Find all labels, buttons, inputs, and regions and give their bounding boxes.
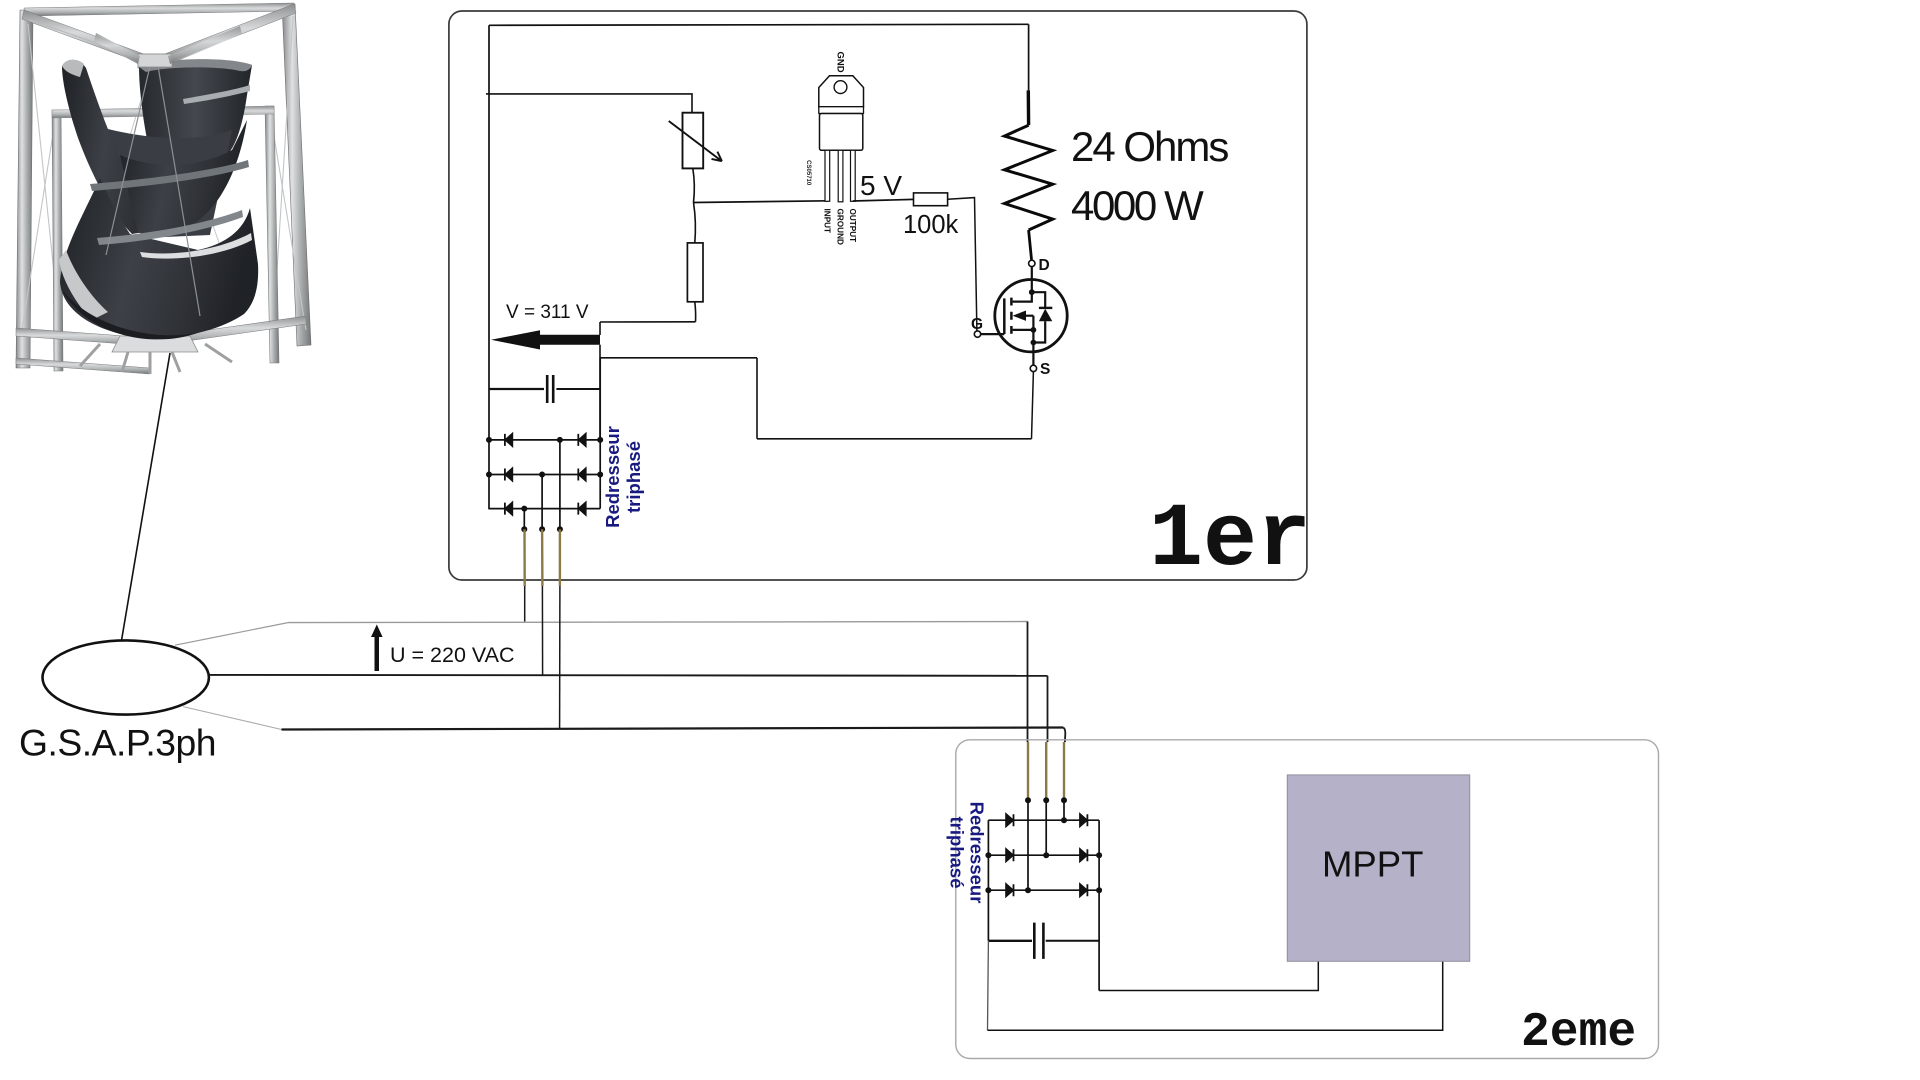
photo: wind turbine frame outer left post bbox=[16, 10, 33, 368]
photo: wind turbine guy cable right diagonal bbox=[272, 16, 293, 350]
photo: wind turbine stripe mid body bbox=[90, 160, 249, 191]
svg-text:V = 311 V: V = 311 V bbox=[506, 302, 589, 323]
photo: wind turbine frame top-right V beam bbox=[157, 4, 296, 66]
wire: olive phase lead C (2eme) bbox=[1063, 742, 1065, 800]
photo: wind turbine top cup rim highlight bbox=[139, 59, 252, 72]
wire: source return vertical bbox=[756, 358, 758, 439]
diode D10 (row1 right, pointing right) bbox=[1080, 814, 1087, 826]
photo: wind turbine bottom-left beam bbox=[16, 328, 152, 346]
svg-text:GND: GND bbox=[835, 51, 846, 72]
rectifier 1 row 1 wire bbox=[489, 439, 600, 441]
MOSFET Q1 source terminal circle bbox=[1030, 365, 1036, 371]
wire: mosfet source stub inside bbox=[1032, 345, 1034, 365]
photo: wind turbine bottom hub bbox=[112, 336, 198, 352]
box 1er outline bbox=[449, 11, 1307, 580]
wire: mid junction down to resistor R2 bbox=[694, 203, 696, 243]
svg-text:INPUT: INPUT bbox=[822, 209, 831, 234]
voltage regulator U1 mounting hole bbox=[834, 81, 847, 94]
photo: wind turbine inner top beam bbox=[52, 106, 274, 118]
svg-text:S: S bbox=[1040, 361, 1050, 378]
svg-text:2eme: 2eme bbox=[1521, 1006, 1636, 1060]
resistor R3 100k body bbox=[914, 193, 948, 206]
potentiometer body bbox=[683, 113, 704, 169]
diode D3 (row3 left, pointing left) bbox=[505, 503, 512, 515]
wire: top bus drop to load resistor bbox=[1028, 24, 1030, 90]
MOSFET Q1 body diode triangle bbox=[1039, 309, 1052, 322]
svg-text:1er: 1er bbox=[1149, 490, 1311, 592]
photo: wind turbine bottom white band bbox=[59, 250, 108, 320]
diode D8 (row2 left, pointing right) bbox=[1006, 849, 1013, 861]
photo: wind turbine bottom shadow edge bbox=[62, 290, 200, 339]
wire: drain into mosfet bbox=[1031, 267, 1033, 293]
wire: source return horizontal upper bbox=[600, 357, 757, 359]
wire: R2 bottom horizontal to arrow node bbox=[600, 321, 696, 323]
voltage regulator U1 leg INPUT bbox=[825, 150, 830, 201]
wire: phase C vertical drop to 2eme bbox=[1063, 728, 1065, 743]
resistor R2 body bbox=[687, 243, 703, 302]
photo: wind turbine front cable left bbox=[106, 66, 150, 255]
rectifier 2 row 3 wire bbox=[988, 889, 1099, 891]
rectifier 2 phase column C bbox=[1063, 800, 1065, 820]
photo: wind turbine bottom-left lower rail bbox=[16, 358, 150, 374]
photo: wind turbine guy cable left diagonal bbox=[28, 24, 60, 330]
photo: wind turbine top beam stub left front bbox=[94, 33, 140, 64]
box 2eme outline bbox=[956, 740, 1659, 1059]
wire: branch to potentiometer top bbox=[486, 94, 692, 113]
arrow up at U = 220 VAC bbox=[371, 625, 383, 672]
svg-text:100k: 100k bbox=[903, 211, 959, 239]
wire: phase A diagonal from generator bbox=[175, 623, 288, 646]
diode D4 (row1 right, pointing left) bbox=[578, 434, 585, 446]
svg-text:Redresseur: Redresseur bbox=[602, 426, 623, 528]
wire: 100k to MOSFET gate bbox=[948, 198, 977, 331]
photo: wind turbine frame top beam bbox=[24, 3, 295, 16]
load resistor R4 top lead (thick) bbox=[1027, 90, 1031, 125]
rectifier 1 row 2 wire bbox=[489, 474, 600, 476]
svg-text:5 V: 5 V bbox=[860, 170, 902, 201]
wire: OUTPUT to resistor 100k bbox=[853, 199, 914, 201]
wire: bottom rail to MPPT right pin bbox=[988, 961, 1443, 1030]
voltage regulator U1 tab bbox=[819, 76, 864, 107]
MOSFET Q1 body diode top link bbox=[1032, 292, 1045, 308]
svg-text:GROUND: GROUND bbox=[836, 209, 845, 245]
load resistor R4 zigzag 24 Ohms 4000 W bbox=[1005, 125, 1053, 230]
photo: wind turbine front cable right bbox=[158, 66, 200, 316]
svg-text:MPPT: MPPT bbox=[1322, 844, 1423, 885]
capacitor C2 plates bbox=[1034, 923, 1043, 959]
diode D6 (row3 right, pointing left) bbox=[578, 503, 585, 515]
wire: phase B vertical drop to 2eme bbox=[1047, 676, 1049, 742]
svg-text:24 Ohms: 24 Ohms bbox=[1071, 123, 1228, 170]
photo: wind turbine guy cable center-right down bbox=[157, 64, 225, 260]
svg-text:triphasé: triphasé bbox=[623, 441, 644, 513]
photo: wind turbine body fill patch bbox=[104, 128, 232, 238]
svg-text:4000 W: 4000 W bbox=[1071, 182, 1204, 229]
photo: wind turbine top hub plate front bbox=[138, 54, 172, 67]
rectifier 2 phase column A bbox=[1027, 800, 1029, 890]
diode D9 (row3 left, pointing right) bbox=[1006, 884, 1013, 896]
wire: left bus down to bottom rail bbox=[987, 941, 990, 1031]
svg-text:G: G bbox=[971, 316, 983, 333]
capacitor C1 right wire bbox=[556, 388, 600, 390]
photo: wind turbine stripe mid2 body bbox=[97, 210, 243, 245]
diode D7 (row1 left, pointing right) bbox=[1006, 814, 1013, 826]
rectifier 2 right bus bbox=[1098, 820, 1100, 990]
wire: vertical above arrow bbox=[599, 322, 601, 335]
load resistor R4 bottom lead (thick) bbox=[1029, 230, 1032, 260]
rectifier 1 right bus bbox=[599, 358, 601, 509]
photo: wind turbine guy cable left X bbox=[22, 115, 56, 330]
node dots rectifier 2 bbox=[985, 797, 1102, 893]
photo: wind turbine bowl top white arc bbox=[140, 233, 252, 259]
voltage regulator U1 leg OUTPUT bbox=[851, 150, 856, 201]
wire: mid junction to regulator INPUT bbox=[694, 201, 829, 203]
photo: wind turbine inner left post bbox=[52, 110, 63, 371]
rectifier 1 phase stub C bbox=[523, 509, 525, 530]
svg-text:triphasé: triphasé bbox=[947, 817, 968, 889]
wire: olive phase lead A (2eme) bbox=[1027, 742, 1029, 800]
photo: wind turbine frame top hub plate bbox=[138, 54, 170, 68]
wire: source terminal down to return bbox=[1032, 372, 1034, 439]
wire: source return horizontal lower bbox=[757, 438, 1032, 440]
MOSFET Q1 source arrow wire bbox=[1024, 315, 1033, 317]
wire: potentiometer bottom to mid junction bbox=[693, 168, 695, 202]
photo: wind turbine lower bowl bbox=[60, 178, 258, 338]
MOSFET Q1 gate bar bbox=[1003, 298, 1006, 334]
MOSFET Q1 channel dashes bbox=[1010, 298, 1013, 334]
MOSFET Q1 drain terminal circle bbox=[1029, 260, 1035, 266]
capacitor C2 left wire bbox=[988, 940, 1032, 942]
arrow V=311V pointing left bbox=[491, 330, 600, 349]
wire: phase lead B to middle line bbox=[541, 586, 543, 676]
wire: phase A vertical drop to 2eme bbox=[1027, 622, 1029, 743]
photo: wind turbine top beam stub right front bbox=[168, 26, 242, 64]
diode D12 (row3 right, pointing right) bbox=[1080, 884, 1087, 896]
photo: wind turbine bottom-right beam bbox=[152, 316, 306, 346]
wire: phase C bottom line bbox=[282, 728, 1064, 730]
photo: wind turbine frame outer right post bbox=[282, 4, 311, 346]
svg-text:OUTPUT: OUTPUT bbox=[848, 209, 857, 243]
diode D2 (row2 left, pointing left) bbox=[505, 468, 512, 480]
diode D11 (row2 right, pointing right) bbox=[1080, 849, 1087, 861]
wire: phase A top line bbox=[288, 622, 1028, 623]
rectifier 1 row 3 wire bbox=[489, 508, 600, 510]
wire: R2 bottom lead bbox=[694, 302, 697, 322]
diode D1 (row1 left, pointing left) bbox=[505, 434, 512, 446]
photo: wind turbine guy cable top-left bbox=[30, 20, 150, 62]
photo: wind turbine helical rotor top cup bbox=[139, 60, 252, 161]
wire: olive phase lead C (1er) bbox=[559, 529, 561, 586]
wire: phase C diagonal from generator bbox=[183, 707, 281, 730]
wire: gate terminal to gate bar bbox=[981, 333, 1005, 335]
wire: left DC bus of box 1er bbox=[488, 25, 490, 509]
MOSFET Q1 body diode bottom link bbox=[1033, 321, 1045, 342]
rectifier 1 phase stub A bbox=[559, 440, 561, 529]
wire: phase lead C to bottom line bbox=[559, 586, 561, 729]
MOSFET Q1 source vertical bbox=[1032, 316, 1034, 343]
photo: wind turbine guy cable center-left down bbox=[95, 64, 152, 250]
node dots rectifier 1 bbox=[486, 437, 603, 532]
MOSFET Q1 body circle bbox=[995, 280, 1067, 352]
wire: top bus of box 1er bbox=[489, 24, 1029, 25]
photo: wind turbine cup stripe bbox=[183, 85, 250, 104]
photo: wind turbine blade crossing mid bbox=[120, 120, 247, 233]
photo: wind turbine bottom legs bbox=[80, 344, 232, 374]
MOSFET Q1 body connection bbox=[1013, 329, 1034, 331]
rectifier 2 row 1 wire bbox=[988, 819, 1099, 821]
capacitor C2 right wire bbox=[1046, 940, 1099, 942]
svg-text:D: D bbox=[1039, 257, 1050, 274]
photo: wind turbine inner right post bbox=[265, 106, 279, 363]
svg-text:CS05710: CS05710 bbox=[805, 160, 811, 186]
voltage regulator U1 leg GROUND bbox=[838, 150, 843, 202]
wire: olive phase lead A (1er) bbox=[523, 529, 526, 586]
svg-text:G.S.A.P.3ph: G.S.A.P.3ph bbox=[19, 722, 216, 764]
pointer line from turbine to generator ellipse bbox=[116, 353, 171, 676]
potentiometer arrow bbox=[669, 121, 722, 161]
wire: phase B middle line bbox=[209, 674, 1048, 677]
photo: wind turbine main blade (upper left) bbox=[62, 60, 178, 234]
MOSFET Q1 body diode cathode bar bbox=[1039, 307, 1052, 309]
rectifier 1 phase stub B bbox=[541, 475, 543, 530]
wire: right bus to MPPT left pin bbox=[1099, 961, 1318, 990]
photo: wind turbine guy cable right X bbox=[270, 112, 306, 330]
diode D5 (row2 right, pointing left) bbox=[578, 468, 585, 480]
capacitor C1 plates bbox=[547, 375, 553, 403]
wire: olive phase lead B (2eme) bbox=[1045, 742, 1047, 800]
generator ellipse G.S.A.P.3ph bbox=[43, 640, 209, 714]
MOSFET Q1 source arrow (pointing left) bbox=[1013, 311, 1026, 321]
wire: phase lead A to top line bbox=[524, 586, 526, 622]
photo: wind turbine frame top-left V beam bbox=[22, 10, 152, 66]
photo: wind turbine blade tip cap bbox=[62, 60, 84, 77]
wire: vertical below arrow to S-node bbox=[599, 345, 601, 440]
wire: olive phase lead B (1er) bbox=[541, 529, 544, 586]
MOSFET Q1 internal node dots bbox=[1029, 289, 1036, 345]
MOSFET Q1 drain connection bbox=[1013, 292, 1032, 301]
photo: wind turbine cup lip highlight bbox=[150, 148, 227, 161]
rectifier 2 row 2 wire bbox=[988, 854, 1099, 856]
svg-text:Redresseur: Redresseur bbox=[967, 802, 988, 904]
svg-text:U = 220 VAC: U = 220 VAC bbox=[390, 643, 515, 667]
rectifier 2 left bus bbox=[987, 820, 989, 941]
capacitor C1 left wire bbox=[489, 388, 544, 390]
rectifier 2 phase column B bbox=[1045, 800, 1047, 855]
MOSFET Q1 gate terminal circle bbox=[974, 331, 980, 337]
voltage regulator U1 body bbox=[820, 114, 863, 151]
MPPT block bbox=[1287, 775, 1469, 961]
voltage regulator U1 band bbox=[819, 107, 864, 114]
